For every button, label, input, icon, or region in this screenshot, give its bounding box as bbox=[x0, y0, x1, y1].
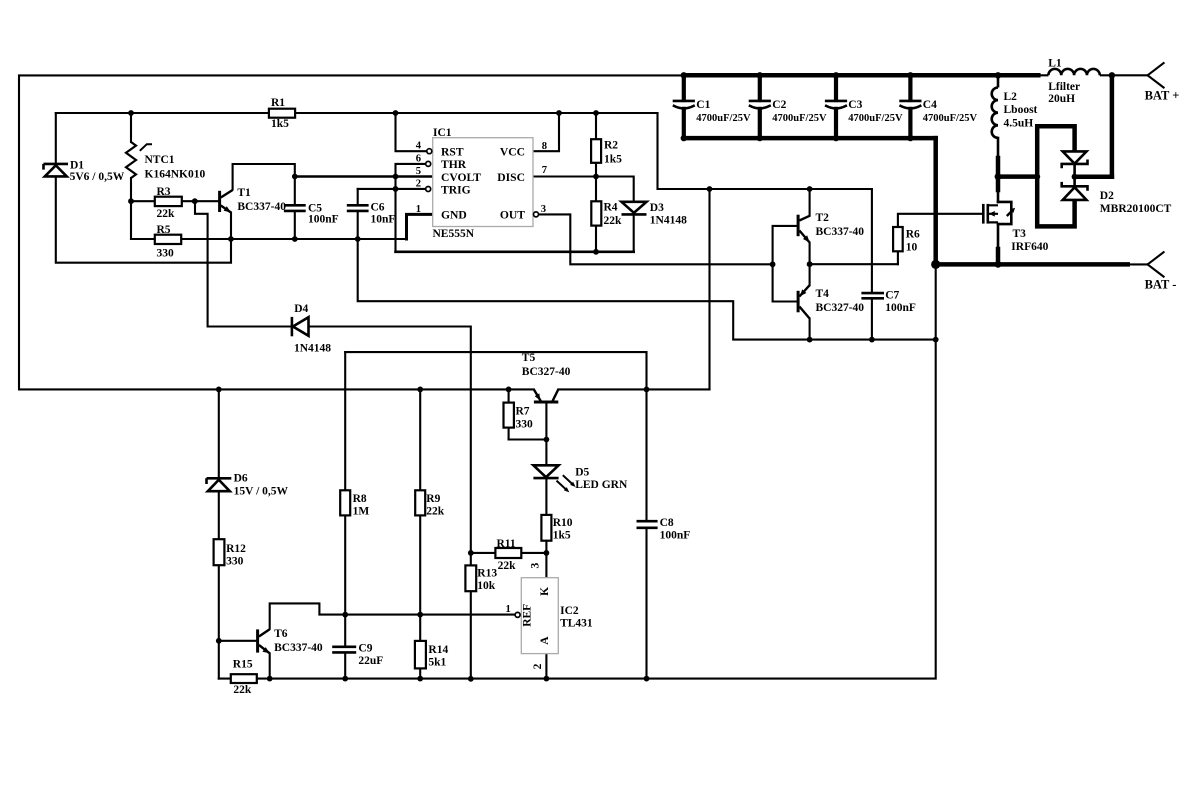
svg-text:330: 330 bbox=[226, 556, 244, 568]
svg-text:OUT: OUT bbox=[500, 209, 525, 222]
svg-text:NTC1: NTC1 bbox=[145, 154, 175, 166]
svg-text:4: 4 bbox=[416, 141, 422, 152]
svg-text:100nF: 100nF bbox=[308, 214, 339, 226]
svg-text:D5: D5 bbox=[575, 466, 589, 478]
svg-text:BAT +: BAT + bbox=[1145, 88, 1180, 102]
svg-text:1k5: 1k5 bbox=[271, 118, 289, 130]
svg-text:RST: RST bbox=[441, 145, 464, 158]
svg-text:R11: R11 bbox=[497, 538, 516, 550]
svg-text:100nF: 100nF bbox=[660, 529, 691, 541]
svg-text:5V6 / 0,5W: 5V6 / 0,5W bbox=[70, 171, 125, 183]
svg-text:T4: T4 bbox=[816, 288, 830, 300]
svg-text:4700uF/25V: 4700uF/25V bbox=[772, 113, 827, 124]
svg-text:MBR20100CT: MBR20100CT bbox=[1100, 203, 1172, 215]
svg-text:DISC: DISC bbox=[497, 171, 525, 184]
svg-text:THR: THR bbox=[441, 158, 467, 171]
svg-text:22k: 22k bbox=[157, 208, 176, 220]
svg-text:CVOLT: CVOLT bbox=[441, 171, 481, 184]
svg-text:1k5: 1k5 bbox=[553, 529, 571, 541]
svg-text:10nF: 10nF bbox=[371, 214, 396, 226]
svg-text:330: 330 bbox=[516, 419, 534, 431]
svg-text:15V / 0,5W: 15V / 0,5W bbox=[234, 486, 289, 498]
svg-text:6: 6 bbox=[416, 153, 421, 164]
svg-text:R6: R6 bbox=[906, 229, 920, 241]
svg-text:R5: R5 bbox=[157, 224, 171, 236]
svg-text:D2: D2 bbox=[1100, 190, 1114, 202]
svg-text:GND: GND bbox=[441, 209, 467, 222]
svg-text:C2: C2 bbox=[772, 99, 786, 111]
svg-text:NE555N: NE555N bbox=[433, 228, 475, 240]
svg-text:IC1: IC1 bbox=[433, 127, 452, 139]
svg-text:20uH: 20uH bbox=[1048, 93, 1075, 105]
svg-text:R14: R14 bbox=[428, 644, 448, 656]
svg-text:R13: R13 bbox=[477, 568, 497, 580]
svg-text:22k: 22k bbox=[498, 560, 516, 572]
svg-text:3: 3 bbox=[541, 204, 546, 215]
svg-text:8: 8 bbox=[542, 141, 547, 152]
svg-text:100nF: 100nF bbox=[885, 302, 916, 314]
svg-text:D4: D4 bbox=[294, 303, 308, 315]
svg-text:7: 7 bbox=[542, 165, 548, 176]
svg-text:A: A bbox=[539, 636, 551, 645]
svg-text:D6: D6 bbox=[234, 472, 248, 484]
svg-text:BC337-40: BC337-40 bbox=[274, 642, 323, 654]
svg-text:L1: L1 bbox=[1048, 57, 1062, 69]
svg-text:BAT -: BAT - bbox=[1145, 278, 1177, 292]
svg-text:K: K bbox=[539, 587, 551, 596]
svg-text:4.5uH: 4.5uH bbox=[1004, 117, 1034, 129]
svg-text:4700uF/25V: 4700uF/25V bbox=[923, 113, 978, 124]
svg-text:R15: R15 bbox=[233, 659, 253, 671]
svg-text:10k: 10k bbox=[477, 580, 496, 592]
svg-text:REF: REF bbox=[522, 604, 534, 627]
svg-text:VCC: VCC bbox=[500, 145, 525, 158]
svg-text:1: 1 bbox=[506, 604, 511, 615]
svg-text:C3: C3 bbox=[848, 99, 862, 111]
svg-text:4700uF/25V: 4700uF/25V bbox=[848, 113, 903, 124]
svg-text:TRIG: TRIG bbox=[441, 183, 471, 196]
svg-text:1N4148: 1N4148 bbox=[294, 343, 331, 355]
svg-text:R9: R9 bbox=[426, 493, 440, 505]
svg-text:IRF640: IRF640 bbox=[1011, 241, 1048, 253]
svg-text:L2: L2 bbox=[1004, 91, 1018, 103]
svg-text:D3: D3 bbox=[650, 202, 664, 214]
svg-text:22k: 22k bbox=[426, 506, 445, 518]
svg-text:Lfilter: Lfilter bbox=[1048, 81, 1080, 93]
svg-text:3: 3 bbox=[529, 562, 541, 568]
svg-text:TL431: TL431 bbox=[560, 618, 593, 630]
svg-text:BC327-40: BC327-40 bbox=[522, 366, 571, 378]
svg-text:C7: C7 bbox=[885, 290, 899, 302]
svg-text:22uF: 22uF bbox=[358, 655, 383, 667]
svg-text:1N4148: 1N4148 bbox=[650, 215, 687, 227]
svg-text:C5: C5 bbox=[308, 202, 322, 214]
svg-text:5k1: 5k1 bbox=[428, 656, 446, 668]
svg-text:Lboost: Lboost bbox=[1004, 104, 1038, 116]
svg-text:4700uF/25V: 4700uF/25V bbox=[696, 113, 751, 124]
svg-text:D1: D1 bbox=[70, 160, 84, 172]
svg-text:R8: R8 bbox=[353, 493, 367, 505]
svg-text:C1: C1 bbox=[696, 99, 710, 111]
svg-text:C6: C6 bbox=[371, 202, 385, 214]
svg-text:K164NK010: K164NK010 bbox=[145, 169, 206, 181]
svg-text:BC337-40: BC337-40 bbox=[237, 201, 286, 213]
svg-text:C8: C8 bbox=[660, 517, 674, 529]
svg-text:C4: C4 bbox=[923, 99, 937, 111]
svg-text:T3: T3 bbox=[1013, 228, 1027, 240]
svg-text:BC337-40: BC337-40 bbox=[816, 226, 865, 238]
svg-text:330: 330 bbox=[157, 247, 175, 259]
svg-text:T6: T6 bbox=[274, 628, 288, 640]
svg-text:R10: R10 bbox=[553, 517, 573, 529]
svg-text:R1: R1 bbox=[271, 97, 285, 109]
svg-text:C9: C9 bbox=[358, 642, 372, 654]
svg-text:T1: T1 bbox=[237, 187, 251, 199]
svg-text:T5: T5 bbox=[522, 352, 536, 364]
svg-text:1k5: 1k5 bbox=[604, 153, 622, 165]
svg-text:1M: 1M bbox=[353, 506, 370, 518]
svg-text:BC327-40: BC327-40 bbox=[816, 302, 865, 314]
svg-text:5: 5 bbox=[416, 166, 421, 177]
svg-text:22k: 22k bbox=[604, 215, 623, 227]
svg-text:10: 10 bbox=[906, 241, 918, 253]
svg-text:R7: R7 bbox=[516, 405, 530, 417]
svg-text:T2: T2 bbox=[816, 212, 830, 224]
svg-text:LED GRN: LED GRN bbox=[575, 479, 628, 491]
svg-text:R2: R2 bbox=[604, 140, 618, 152]
svg-text:1: 1 bbox=[416, 204, 421, 215]
svg-text:2: 2 bbox=[532, 663, 544, 669]
svg-text:R12: R12 bbox=[226, 543, 246, 555]
svg-text:22k: 22k bbox=[233, 684, 252, 696]
svg-text:R3: R3 bbox=[157, 186, 171, 198]
svg-text:IC2: IC2 bbox=[560, 605, 579, 617]
svg-text:R4: R4 bbox=[604, 201, 618, 213]
svg-text:2: 2 bbox=[416, 178, 421, 189]
